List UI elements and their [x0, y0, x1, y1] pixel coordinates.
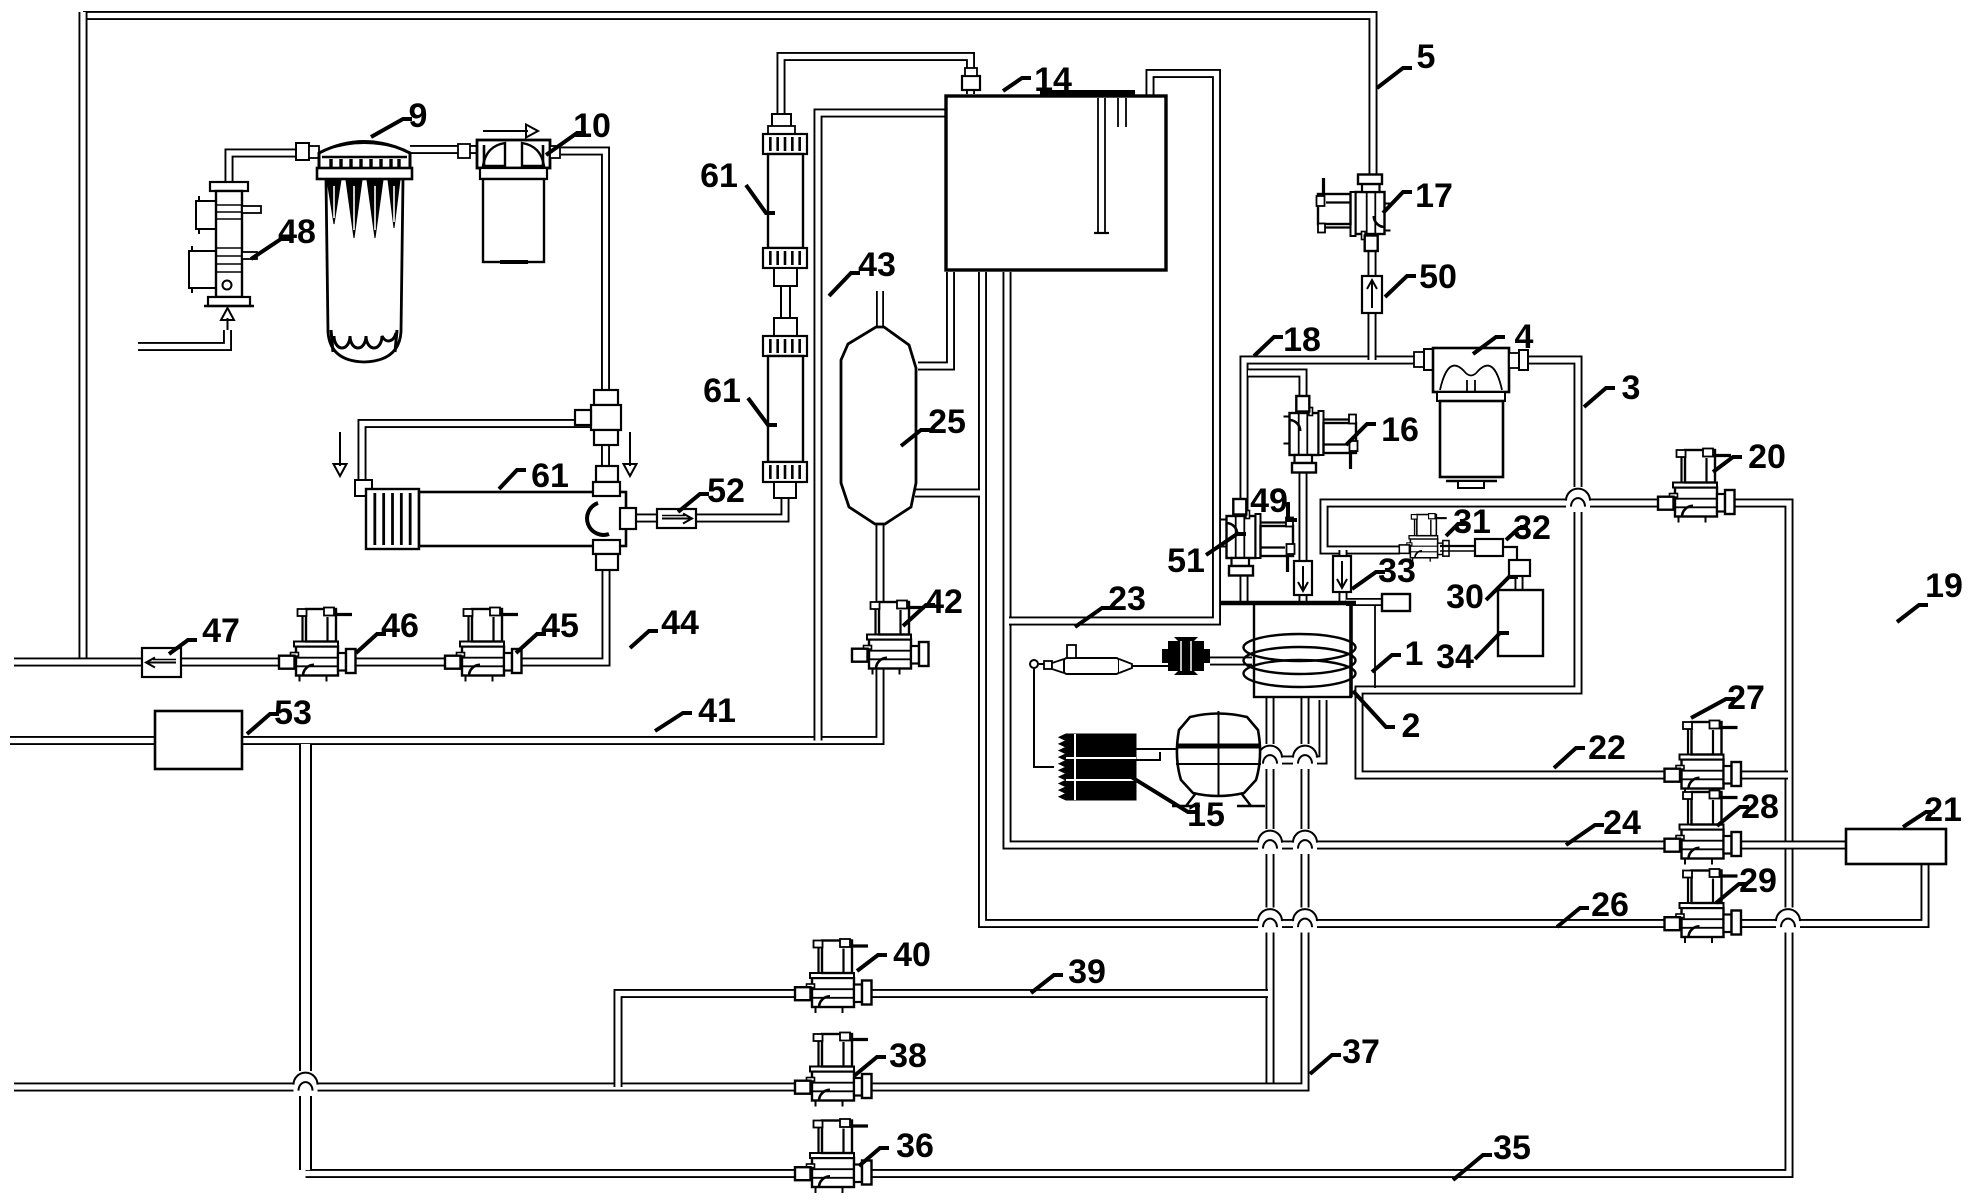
- label 3: [1584, 369, 1640, 407]
- tank 1: [1221, 603, 1375, 697]
- svg-text:4: 4: [1515, 318, 1534, 356]
- flow meter 50: [1362, 276, 1382, 313]
- label 41: [655, 692, 736, 731]
- wire valve 16 down to tank 1: [1299, 459, 1308, 601]
- label 61 lower: [703, 372, 777, 425]
- hop line 26 over line 19: [1776, 908, 1800, 933]
- svg-text:36: 36: [896, 1127, 934, 1165]
- label 47: [169, 612, 240, 654]
- label 44: [630, 604, 699, 648]
- svg-text:52: 52: [707, 472, 745, 510]
- label 49: [1250, 482, 1297, 520]
- hop line 24 over A: [1258, 829, 1282, 854]
- svg-text:30: 30: [1446, 578, 1484, 616]
- wire 52 line membrane to module 61: [608, 498, 785, 518]
- membrane module 61 horizontal: [355, 480, 626, 549]
- component 48 pump: [189, 182, 261, 306]
- label 22: [1554, 729, 1626, 768]
- valve 45: [445, 608, 522, 682]
- label 21: [1903, 791, 1962, 829]
- wire 43 from tank 14 down to line 41: [818, 113, 946, 741]
- arrow at membrane inlet: [334, 432, 347, 476]
- svg-text:42: 42: [925, 583, 963, 621]
- hop line 38 over branch from 41: [294, 1071, 318, 1096]
- flow meter 47: [142, 648, 181, 677]
- label 32: [1506, 509, 1551, 547]
- wire 26 valve 29 outlet to box 21 bottom: [1734, 864, 1925, 924]
- svg-text:46: 46: [381, 607, 419, 645]
- svg-text:9: 9: [409, 97, 428, 135]
- label 33: [1352, 552, 1416, 590]
- box 53: [155, 711, 242, 769]
- wire 33 to sensor box: [1346, 598, 1382, 606]
- tank 14: [946, 68, 1166, 270]
- module 61 lower: [763, 336, 807, 498]
- valve 49 and 51: [1221, 499, 1295, 576]
- svg-text:31: 31: [1453, 503, 1491, 541]
- wire 23 / tank 14 right side pipe: [1009, 74, 1217, 622]
- label 39: [1031, 953, 1106, 993]
- wire tank 25 bottom to valve 42: [876, 524, 885, 602]
- svg-text:10: 10: [573, 107, 611, 145]
- flow meter 52: [657, 509, 696, 528]
- hop line 24 over 37: [1293, 829, 1317, 854]
- svg-text:1: 1: [1405, 635, 1424, 673]
- label 38: [854, 1037, 927, 1076]
- wire 24 from tank 14 to valve 28: [1007, 272, 1666, 845]
- wire 24 valve 28 outlet to box 21: [1734, 841, 1846, 850]
- label 1: [1372, 635, 1423, 673]
- label 48: [251, 213, 316, 259]
- wire riser to valve 16: [1248, 373, 1303, 409]
- hop line 20 over pipe 3: [1566, 487, 1590, 512]
- svg-text:21: 21: [1924, 791, 1962, 829]
- valve 40: [795, 939, 872, 1013]
- wire tank 25 side port: [915, 489, 980, 498]
- label 18: [1254, 321, 1321, 359]
- label 61 upper: [700, 157, 775, 213]
- wire compressor discharge to tank 1: [1263, 700, 1323, 760]
- wire feed into 48: [138, 330, 228, 347]
- svg-text:22: 22: [1588, 729, 1626, 767]
- svg-text:2: 2: [1402, 707, 1421, 745]
- svg-text:53: 53: [274, 694, 312, 732]
- label 16: [1346, 411, 1419, 449]
- wire 38 long horizontal / wire 37 up to tank 1: [14, 698, 1305, 1087]
- arrow at tee column: [624, 432, 637, 476]
- svg-text:49: 49: [1250, 482, 1288, 520]
- wire vertical A under tank 1: [1266, 698, 1275, 1087]
- wire 47-45-46 drain line with riser 44: [14, 520, 606, 662]
- label 45: [516, 607, 579, 653]
- label 36: [859, 1127, 934, 1166]
- valve 20: [1658, 449, 1735, 523]
- valve 42: [852, 601, 929, 675]
- hop line 26 over A: [1258, 908, 1282, 933]
- svg-text:51: 51: [1167, 542, 1205, 580]
- svg-text:48: 48: [278, 213, 316, 251]
- svg-text:16: 16: [1381, 411, 1419, 449]
- valve 38: [795, 1033, 872, 1107]
- arrow inlet of 48: [221, 308, 234, 330]
- solenoid drier (black): [1162, 637, 1210, 675]
- svg-text:37: 37: [1342, 1033, 1380, 1071]
- label 14: [1003, 61, 1072, 99]
- label 2: [1353, 691, 1420, 745]
- svg-text:38: 38: [889, 1037, 927, 1075]
- label 37: [1310, 1033, 1380, 1074]
- label 42: [903, 583, 963, 626]
- flow indicator 33a: [1294, 561, 1312, 595]
- wire 3 filter 4 to line 22 / wire 22: [1359, 360, 1788, 775]
- wire 33 arrow branch down: [1339, 550, 1348, 601]
- wire 39 from valve 40: [618, 994, 1268, 1088]
- box 34: [1498, 590, 1543, 656]
- valve 29: [1665, 869, 1742, 943]
- svg-text:15: 15: [1187, 796, 1225, 834]
- label 61 membrane: [499, 457, 569, 495]
- filter drier capsule: [1044, 645, 1174, 674]
- svg-text:18: 18: [1283, 321, 1321, 359]
- svg-text:34: 34: [1436, 638, 1474, 676]
- label 31: [1446, 503, 1491, 541]
- label 10: [546, 107, 611, 155]
- label 40: [857, 936, 931, 974]
- svg-text:26: 26: [1591, 886, 1629, 924]
- label 27: [1691, 679, 1765, 718]
- valve 16: [1284, 396, 1358, 473]
- filter 9 housing: [296, 142, 412, 363]
- wire filter 9 to filter 10: [410, 145, 477, 154]
- module 61 upper: [763, 114, 807, 336]
- wire valve 31 loop to valve 20: [1324, 503, 1666, 550]
- svg-text:14: 14: [1034, 61, 1072, 99]
- wire tank 25 top stub: [876, 291, 884, 326]
- wire tank 14 outlet to tank 25 top: [918, 272, 951, 366]
- svg-text:61: 61: [700, 157, 738, 195]
- label 24: [1566, 804, 1641, 845]
- tank 25: [841, 327, 916, 524]
- condenser coil (15): [1059, 734, 1136, 800]
- wire module 61 top to tank 14: [781, 57, 971, 135]
- svg-text:43: 43: [858, 246, 896, 284]
- label 9: [371, 97, 427, 137]
- svg-text:3: 3: [1622, 369, 1641, 407]
- label 46: [356, 607, 419, 653]
- wire valve 31 to box 32: [1440, 545, 1475, 547]
- label 23: [1075, 580, 1146, 627]
- label 30: [1446, 577, 1518, 616]
- label 15: [1120, 770, 1225, 834]
- svg-text:35: 35: [1493, 1129, 1531, 1167]
- arrow above filter 10: [483, 125, 538, 138]
- label 51: [1167, 534, 1246, 580]
- wire filter 10 outlet down to tee: [561, 151, 606, 505]
- svg-text:33: 33: [1378, 552, 1416, 590]
- tee fittings at membrane right end: [587, 466, 636, 570]
- filter 4: [1414, 348, 1528, 488]
- label 34: [1436, 633, 1509, 676]
- valve 17: [1317, 175, 1391, 252]
- label 28: [1717, 788, 1779, 826]
- label 26: [1557, 886, 1629, 927]
- hop compressor line over 37: [1293, 744, 1317, 769]
- svg-text:41: 41: [698, 692, 736, 730]
- box 32: [1475, 539, 1503, 556]
- svg-text:19: 19: [1925, 567, 1963, 605]
- svg-text:44: 44: [661, 604, 699, 642]
- wire capsule to condenser: [1030, 660, 1054, 767]
- label 25: [901, 403, 966, 446]
- wire from valve 17 / meter 50 down: [1368, 250, 1377, 360]
- svg-text:17: 17: [1415, 177, 1453, 215]
- label 50: [1385, 258, 1457, 297]
- wire box 32 to box 30: [1503, 547, 1517, 560]
- sensor box near 33: [1382, 594, 1410, 611]
- svg-text:40: 40: [893, 936, 931, 974]
- label 19: [1897, 567, 1963, 622]
- svg-text:28: 28: [1741, 788, 1779, 826]
- wire 18 from valve 49 to filter 4: [1244, 360, 1414, 601]
- valve 31: [1399, 514, 1449, 562]
- valve 28: [1665, 791, 1742, 865]
- box 30: [1509, 560, 1530, 576]
- svg-text:61: 61: [703, 372, 741, 410]
- svg-text:27: 27: [1727, 679, 1765, 717]
- label 52: [678, 472, 745, 512]
- label 35: [1453, 1129, 1531, 1180]
- hop line 26 over 37: [1293, 908, 1317, 933]
- wire from line 41 down to line 35 via box 53 branch: [299, 744, 312, 1170]
- filter 10 housing: [458, 140, 560, 262]
- flow indicator 33b: [1333, 556, 1351, 592]
- wire condenser to compressor: [1136, 749, 1176, 760]
- tee fittings above membrane (column from filter 10): [575, 390, 621, 445]
- label 5: [1377, 38, 1435, 88]
- svg-text:61: 61: [531, 457, 569, 495]
- svg-text:47: 47: [202, 612, 240, 650]
- valve 36: [795, 1119, 872, 1193]
- box 21: [1846, 829, 1946, 864]
- wire 26 from tank 14 to valve 29: [983, 272, 1667, 924]
- label 17: [1383, 177, 1453, 215]
- svg-text:20: 20: [1748, 438, 1786, 476]
- svg-text:32: 32: [1513, 509, 1551, 547]
- valve 27: [1665, 721, 1742, 795]
- wire 48 to filter 9: [229, 153, 319, 184]
- svg-text:29: 29: [1739, 862, 1777, 900]
- svg-text:39: 39: [1068, 953, 1106, 991]
- svg-text:5: 5: [1417, 38, 1436, 76]
- svg-text:23: 23: [1108, 580, 1146, 618]
- wire 41 to valve 42: [10, 668, 880, 741]
- wire membrane inlet loop: [362, 424, 606, 497]
- wire left border: [79, 12, 88, 662]
- hop compressor line over A: [1258, 744, 1282, 769]
- compressor (15): [1172, 711, 1265, 806]
- valve 46: [279, 608, 356, 682]
- coil 2 (evaporator in tank 1): [1244, 634, 1356, 687]
- label 29: [1716, 862, 1777, 903]
- wire drier to coil 2: [1210, 657, 1252, 666]
- label 4: [1473, 318, 1534, 356]
- label 20: [1713, 438, 1786, 476]
- svg-text:25: 25: [928, 403, 966, 441]
- svg-text:45: 45: [541, 607, 579, 645]
- wire box 30 to box 34: [1515, 575, 1524, 590]
- label 43: [829, 246, 896, 296]
- wire top border / pipe 5: [83, 16, 1373, 185]
- wire 19 from valve 20 down / wire 35 bottom: [306, 503, 1790, 1174]
- svg-text:50: 50: [1419, 258, 1457, 296]
- label 53: [247, 694, 312, 734]
- svg-text:24: 24: [1603, 804, 1641, 842]
